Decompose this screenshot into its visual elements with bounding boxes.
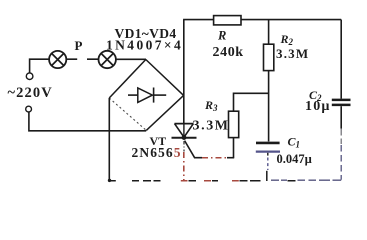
bottom rail dashes (blue) [271, 179, 341, 181]
wire bottom AC lead [29, 112, 146, 131]
wire gate black end [227, 157, 234, 159]
svg-text:R: R [217, 29, 226, 43]
AC terminal bottom [26, 106, 32, 112]
svg-text:3.3M: 3.3M [193, 119, 230, 134]
svg-text:C1: C1 [288, 135, 301, 150]
wire lamp to bridge top [116, 58, 146, 60]
wire top rail left [183, 19, 214, 21]
wire middle vertical upper [268, 20, 270, 45]
lamp (right) [99, 51, 116, 68]
diode inside bridge [128, 88, 166, 103]
svg-text:10µ: 10µ [305, 99, 331, 114]
svg-text:~220V: ~220V [8, 85, 53, 101]
capacitor C2 [332, 20, 351, 180]
wire left vertical (bridge minus to bottom rail) [108, 98, 110, 180]
lamp P (left) [49, 51, 66, 68]
svg-text:2N6565: 2N6565 [132, 145, 182, 160]
svg-text:R2: R2 [280, 32, 294, 47]
wire gate to R3 (red dash-dot) [202, 157, 228, 159]
svg-text:1N4007×4: 1N4007×4 [106, 38, 183, 53]
bridge rectifier VD1~VD4 [109, 60, 183, 131]
wire cathode down upper (dark dash-dot) [183, 141, 185, 152]
thyristor VT [172, 124, 197, 140]
bottom rail dashes (black) [111, 180, 296, 182]
resistor R3 [229, 111, 239, 137]
svg-text:3.3M: 3.3M [276, 46, 309, 61]
resistor R [214, 16, 241, 25]
wire R3 branch [234, 93, 269, 111]
svg-text:240k: 240k [213, 45, 244, 60]
wire top rail right [241, 19, 341, 21]
wire between lamps with gap [66, 58, 98, 60]
svg-text:P: P [75, 38, 83, 53]
bottom rail dashes (red) [181, 180, 239, 182]
wire anode through thyristor [183, 124, 185, 137]
svg-text:0.047µ: 0.047µ [277, 152, 312, 166]
wire cathode down lower (red dash-dot) [183, 152, 185, 181]
svg-text:R3: R3 [204, 98, 218, 113]
wire R3 bottom [233, 138, 235, 158]
wire top AC lead [30, 59, 50, 72]
wire middle vertical lower [268, 71, 270, 142]
resistor R2 [264, 44, 274, 70]
wire right vertical (bridge plus: top rail to thyristor anode) [183, 20, 185, 124]
wire thyristor gate [185, 141, 202, 158]
capacitor C1 [256, 143, 280, 181]
junction dot bottom-left [108, 179, 111, 182]
AC terminal top [26, 73, 33, 80]
